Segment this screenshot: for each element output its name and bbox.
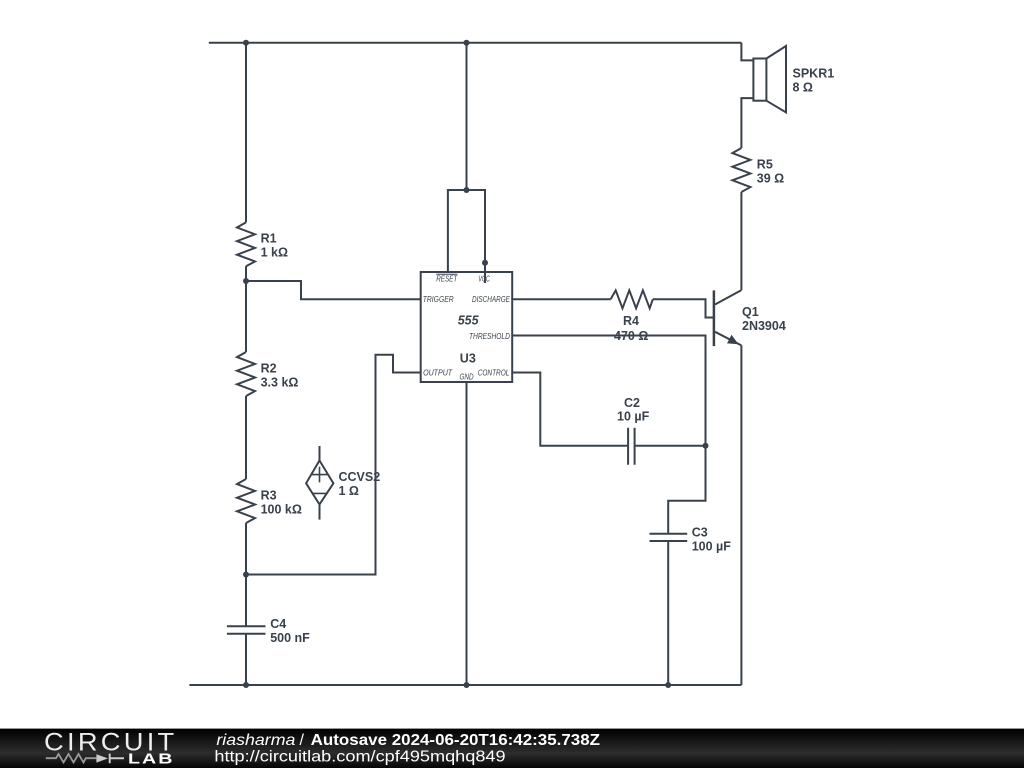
svg-text:Q1: Q1 <box>742 305 759 319</box>
resistor R5 <box>732 148 784 192</box>
wire C2 to threshold net <box>635 445 706 447</box>
svg-text:2N3904: 2N3904 <box>742 319 786 333</box>
svg-text:http://circuitlab.com/cpf495mq: http://circuitlab.com/cpf495mqhq849 <box>214 748 505 765</box>
logo resistor-diode icon <box>46 754 124 764</box>
node junction rail / C3 <box>665 682 671 688</box>
wire C4 to ground rail <box>245 634 247 685</box>
svg-text:CONTROL: CONTROL <box>478 368 510 377</box>
node junction R3/C4/output net <box>243 572 249 578</box>
svg-text:DISCHARGE: DISCHARGE <box>472 295 510 304</box>
capacitor C4 <box>227 617 310 645</box>
wire threshold net <box>512 336 705 534</box>
svg-text:3.3 kΩ: 3.3 kΩ <box>261 376 299 390</box>
wire collector to R5 <box>740 192 742 290</box>
svg-text:555: 555 <box>458 313 480 327</box>
speaker SPKR1 <box>753 46 834 112</box>
wire reset-vcc loop <box>448 190 485 283</box>
wire discharge to R4 <box>512 298 610 300</box>
svg-text:riasharma: riasharma <box>216 732 295 749</box>
svg-text:CCVS2: CCVS2 <box>339 470 381 484</box>
wire top rail to 555 supply loop <box>466 43 468 190</box>
dependent source CCVS2 <box>306 446 380 520</box>
capacitor C2 <box>617 396 650 465</box>
svg-text:Autosave 2024-06-20T16:42:35.7: Autosave 2024-06-20T16:42:35.738Z <box>311 732 601 749</box>
svg-text:VCC: VCC <box>478 275 490 284</box>
svg-text:C2: C2 <box>624 396 640 410</box>
logo CIRCUIT <box>44 729 178 757</box>
wire R3 to C4 <box>245 523 247 626</box>
wire GND pin to rail <box>466 382 468 685</box>
svg-text:GND: GND <box>460 373 474 382</box>
svg-text:1 Ω: 1 Ω <box>339 484 359 498</box>
wire trigger net <box>246 281 421 299</box>
svg-text:500 nF: 500 nF <box>270 631 310 645</box>
footer bar <box>0 729 1024 768</box>
node junction top rail / 555 supply <box>464 40 470 46</box>
wire output net <box>246 355 421 575</box>
svg-text:R4: R4 <box>623 314 639 328</box>
svg-text:/: / <box>300 732 305 749</box>
wire bottom ground rail <box>189 684 741 686</box>
wire R1 to R2 <box>245 266 247 352</box>
svg-text:1 kΩ: 1 kΩ <box>261 246 288 260</box>
op-amp U3 555 timer box <box>421 272 513 382</box>
svg-text:U3: U3 <box>460 352 476 366</box>
resistor R4 <box>611 290 653 343</box>
svg-text:R2: R2 <box>261 362 277 376</box>
svg-text:TRIGGER: TRIGGER <box>423 295 454 304</box>
node junction top rail / R1 <box>243 40 249 46</box>
node junction C2 / threshold net <box>703 443 709 449</box>
wire emitter to rail <box>740 345 742 685</box>
resistor R1 <box>237 222 288 266</box>
resistor R3 <box>237 479 302 523</box>
node junction supply loop <box>464 187 470 193</box>
svg-text:8 Ω: 8 Ω <box>793 81 813 95</box>
wire top rail <box>209 42 742 44</box>
svg-text:R1: R1 <box>261 232 277 246</box>
svg-text:100 kΩ: 100 kΩ <box>261 503 302 517</box>
logo LAB <box>128 752 175 768</box>
svg-text:10 µF: 10 µF <box>617 410 650 424</box>
svg-text:R3: R3 <box>261 489 277 503</box>
wire R5 to speaker <box>741 98 753 148</box>
svg-text:OUTPUT: OUTPUT <box>423 368 453 377</box>
svg-text:LAB: LAB <box>128 752 175 768</box>
resistor R2 <box>237 352 298 396</box>
node junction rail / C4 <box>243 682 249 688</box>
wire control net to C2 <box>512 373 628 446</box>
svg-text:100 µF: 100 µF <box>692 540 732 554</box>
node junction rail / GND pin <box>464 682 470 688</box>
svg-text:C4: C4 <box>270 617 286 631</box>
wire top rail to R1 <box>245 43 247 223</box>
node junction VCC pin <box>482 260 488 266</box>
wire top rail to speaker <box>741 43 753 61</box>
svg-text:39 Ω: 39 Ω <box>757 172 784 186</box>
wire R4 to Q1 base <box>653 299 713 317</box>
svg-text:SPKR1: SPKR1 <box>793 67 835 81</box>
svg-text:R5: R5 <box>757 158 773 172</box>
wire R2 to R3 <box>245 396 247 479</box>
footer schematic title <box>216 732 600 749</box>
capacitor C3 <box>650 526 732 554</box>
svg-text:THRESHOLD: THRESHOLD <box>469 332 510 341</box>
wire C3 to rail <box>667 541 669 685</box>
svg-text:RESET: RESET <box>436 275 458 284</box>
svg-text:C3: C3 <box>692 526 708 540</box>
footer url <box>214 748 505 765</box>
node junction R1/R2/trigger <box>243 278 249 284</box>
transistor Q1 <box>714 290 786 346</box>
